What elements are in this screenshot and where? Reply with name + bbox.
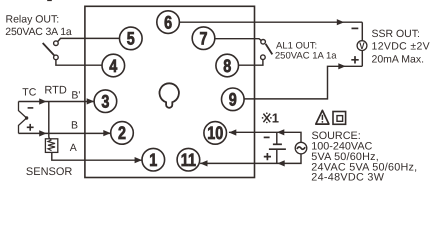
wire: relay bottom contact to terminal 4	[56, 60, 102, 65]
terminal 9	[222, 88, 245, 111]
arrow into terminal 3	[87, 98, 94, 104]
sensor resistor zigzag	[48, 140, 55, 151]
terminal 6	[157, 11, 180, 34]
arrow on wire B' mid	[39, 98, 46, 104]
wire A : sensor bottom to terminal 1	[52, 152, 142, 160]
AL1 contact bottom	[261, 55, 266, 60]
arrow into terminal 11	[200, 160, 207, 166]
terminal 8	[216, 54, 239, 77]
label: TC plus	[27, 124, 34, 131]
svg-text:8: 8	[223, 56, 231, 76]
svg-text:24-48VDC 3W: 24-48VDC 3W	[311, 172, 384, 184]
relay contact bottom (to terminal 4)	[54, 55, 59, 60]
svg-text:A: A	[70, 142, 77, 154]
wire B' : TC minus / RTD B' to terminal 3	[19, 101, 95, 103]
terminal 3	[94, 90, 117, 113]
reference mark x1	[262, 112, 272, 123]
svg-text:B: B	[71, 120, 78, 132]
svg-text:V: V	[359, 41, 365, 52]
socket outline	[85, 6, 255, 177]
voltmeter V circle	[357, 41, 367, 51]
arrow into terminal 2	[103, 130, 110, 136]
wire: relay top contact to terminal 5	[58, 38, 120, 41]
battery plus label	[264, 153, 271, 160]
svg-text:3: 3	[101, 92, 109, 112]
battery top stub	[276, 132, 278, 143]
terminal 1	[142, 148, 165, 171]
svg-text:SSR OUT:: SSR OUT:	[372, 28, 420, 40]
keyhole (socket alignment key)	[159, 83, 178, 107]
svg-text:SENSOR: SENSOR	[26, 166, 73, 178]
svg-text:250VAC 1A 1a: 250VAC 1A 1a	[275, 51, 337, 62]
terminal 5	[120, 27, 143, 50]
terminal 2	[111, 122, 134, 145]
svg-text:Relay OUT:: Relay OUT:	[6, 14, 60, 26]
terminal 10	[204, 122, 227, 145]
AC tilde	[297, 147, 305, 149]
battery minus label	[264, 136, 270, 138]
svg-text:1: 1	[149, 150, 157, 170]
wire: terminal 6 to SSR minus	[180, 21, 363, 23]
svg-text:9: 9	[229, 90, 237, 110]
arrow into terminal 10	[229, 129, 236, 135]
svg-text:TC: TC	[22, 86, 36, 98]
SSR vertical lead	[361, 22, 363, 66]
warning triangle symbol	[316, 110, 329, 124]
double insulation square symbol	[333, 112, 346, 125]
terminal 7	[192, 27, 215, 50]
battery long plate (plus)	[269, 148, 286, 150]
terminal 11	[177, 148, 200, 171]
svg-text:12VDC ±2V: 12VDC ±2V	[372, 41, 431, 53]
svg-text:10: 10	[207, 123, 223, 143]
wire: power bottom to terminal 11	[200, 154, 301, 163]
AL1 contact top	[261, 40, 266, 45]
wire B : TC plus / RTD B to terminal 2	[19, 132, 111, 134]
svg-text:20mA Max.: 20mA Max.	[372, 53, 425, 65]
svg-text:RTD: RTD	[44, 84, 66, 96]
sensor resistor body (RTD element)	[45, 139, 57, 153]
relay contact top (to terminal 5)	[54, 41, 59, 46]
svg-text:6: 6	[164, 12, 172, 32]
top edge sliver artifact	[47, 0, 52, 1]
svg-text:250VAC 3A 1a: 250VAC 3A 1a	[5, 26, 72, 38]
arrow on power top wire at battery junction	[277, 129, 284, 135]
svg-text:1: 1	[272, 111, 279, 126]
wire: terminal 9 to SSR plus	[244, 66, 362, 99]
SSR plus label	[351, 56, 358, 63]
svg-text:7: 7	[199, 29, 207, 49]
svg-text:2: 2	[118, 123, 126, 143]
wire: RTD B' drop to sensor resistor	[49, 102, 51, 140]
AC source circle	[295, 142, 307, 154]
arrow on SSR plus wire	[338, 63, 345, 69]
battery short plate (minus)	[273, 143, 282, 145]
label: TC minus	[28, 107, 34, 109]
wire: power top to terminal 10	[229, 132, 301, 142]
AL1 lever	[266, 44, 273, 55]
svg-text:B': B'	[71, 89, 80, 101]
thermocouple junction dot	[25, 116, 28, 119]
arrow on wire 6	[337, 19, 344, 25]
relay contact lever	[43, 43, 55, 55]
svg-text:11: 11	[181, 150, 196, 170]
terminal 4	[102, 54, 125, 77]
SSR minus label	[352, 27, 359, 29]
wire: terminal 8 to AL1 bottom contact	[239, 60, 263, 65]
battery bottom stub	[276, 150, 278, 164]
wire: terminal 7 to AL1 top contact	[215, 39, 261, 41]
arrow on power bottom wire at battery junction	[277, 160, 284, 166]
thermocouple symbol TC	[19, 102, 27, 134]
arrow into terminal 1	[135, 157, 142, 163]
svg-text:4: 4	[109, 56, 117, 76]
arrow on wire B mid	[39, 130, 46, 136]
svg-text:5: 5	[127, 29, 135, 49]
